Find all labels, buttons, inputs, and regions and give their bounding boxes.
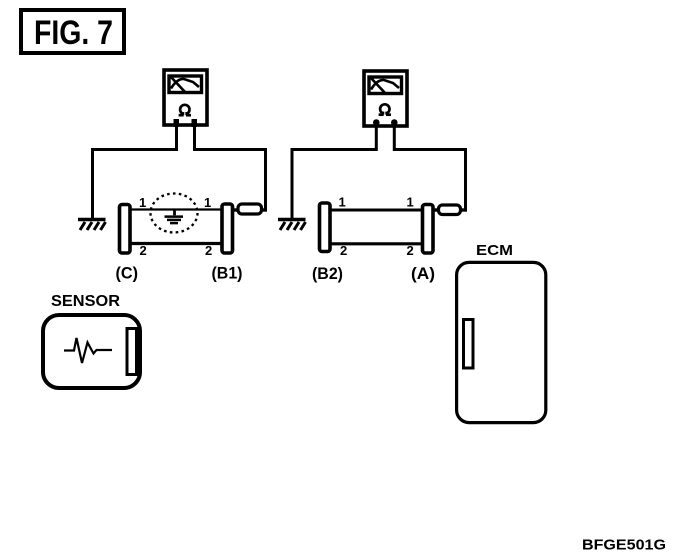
svg-text:SENSOR: SENSOR [51,293,120,310]
svg-text:1: 1 [204,195,211,210]
ohmmeter M1 body [164,70,207,125]
connector C [120,205,131,254]
svg-text:(B1): (B1) [212,265,243,283]
probe at A [433,205,467,215]
sensor connector pad [127,329,137,375]
wire M2 right lead [394,124,465,210]
chassis ground G2 [278,220,306,231]
svg-text:2: 2 [407,243,414,258]
wire pin2 B2-A [331,242,422,245]
FIG. 7 title box [21,10,124,53]
ohmmeter M2 terminal right [391,119,398,126]
ohmmeter M2 terminal left [373,119,380,126]
connector A [423,205,434,254]
wire pin1 B2-A [331,209,422,212]
wire pin2 C-B1 [131,242,221,245]
svg-text:BFGE501G: BFGE501G [582,537,666,554]
wire M2 left lead [292,124,376,218]
connector B2 [320,203,331,252]
probe at B1 [233,204,268,214]
svg-text:1: 1 [407,195,414,210]
connector B1 [222,204,233,253]
svg-text:2: 2 [340,243,347,258]
wire M1 left lead [93,127,177,218]
svg-text:ECM: ECM [476,242,513,259]
ohmmeter M1 terminal left [174,119,180,127]
sensor waveform [64,338,112,363]
sensor box [43,315,140,388]
earth ground symbol inside circle [165,210,184,223]
wire M1 right lead [195,127,266,210]
svg-text:(C): (C) [116,265,139,283]
ohmmeter M2 body [364,71,407,126]
dotted short-to-ground circle [151,194,198,233]
svg-text:FIG. 7: FIG. 7 [34,14,113,52]
svg-text:2: 2 [140,243,147,258]
wire pin1 C-B1 [131,208,221,210]
ECM box [457,262,546,422]
svg-text:1: 1 [339,195,346,210]
svg-text:(A): (A) [411,265,435,283]
svg-text:2: 2 [205,243,212,258]
svg-text:1: 1 [139,195,146,210]
ohmmeter M1 terminal right [192,119,198,127]
ECM connector pad [464,320,474,369]
chassis ground G1 [78,220,106,231]
svg-text:(B2): (B2) [312,265,343,283]
